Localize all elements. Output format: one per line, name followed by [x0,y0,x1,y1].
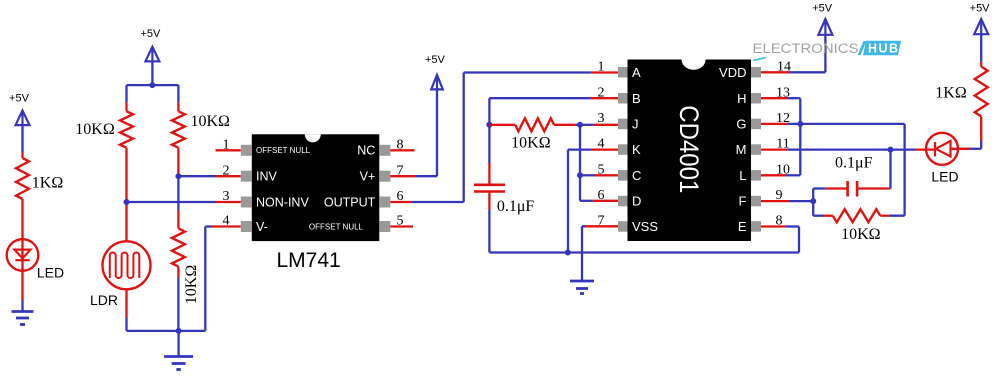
svg-text:H: H [737,91,746,106]
svg-text:CD4001: CD4001 [674,105,704,193]
svg-text:VSS: VSS [632,219,658,234]
svg-text:G: G [736,117,746,132]
svg-text:2: 2 [223,163,230,178]
svg-text:D: D [632,194,641,209]
svg-text:0.1μF: 0.1μF [497,198,535,215]
svg-text:OFFSET NULL: OFFSET NULL [256,146,311,155]
svg-text:B: B [632,91,641,106]
svg-text:4: 4 [598,137,605,152]
svg-text:LED: LED [931,168,958,184]
svg-text:K: K [632,142,641,157]
svg-text:NC: NC [357,144,375,158]
svg-text:C: C [632,168,641,183]
svg-text:6: 6 [598,188,605,203]
svg-text:10KΩ: 10KΩ [841,226,881,243]
svg-text:+5V: +5V [9,92,30,104]
svg-text:5: 5 [598,162,605,177]
svg-text:1KΩ: 1KΩ [935,85,967,102]
svg-text:NON-INV: NON-INV [256,195,309,209]
svg-text:OUTPUT: OUTPUT [324,195,376,209]
svg-text:ELECTRONICS: ELECTRONICS [753,41,859,56]
svg-text:LED: LED [37,264,64,280]
svg-text:VDD: VDD [719,65,746,80]
svg-text:0.1μF: 0.1μF [835,154,873,171]
svg-text:L: L [739,168,746,183]
svg-text:1: 1 [598,59,605,74]
svg-text:3: 3 [223,189,230,204]
svg-text:1: 1 [223,137,230,152]
svg-text:+5V: +5V [970,3,991,15]
svg-text:+5V: +5V [812,3,833,15]
svg-text:LM741: LM741 [276,249,340,272]
svg-text:10KΩ: 10KΩ [511,135,551,152]
svg-text:V+: V+ [360,170,376,184]
svg-text:4: 4 [223,214,230,229]
svg-text:3: 3 [598,111,605,126]
svg-text:V-: V- [256,220,268,234]
svg-text:E: E [738,219,747,234]
svg-text:1KΩ: 1KΩ [32,175,64,192]
svg-text:+5V: +5V [425,54,446,66]
svg-text:7: 7 [598,214,605,229]
svg-text:10KΩ: 10KΩ [75,121,115,138]
svg-text:LDR: LDR [90,292,118,308]
svg-text:10KΩ: 10KΩ [190,113,230,130]
svg-text:A: A [632,65,641,80]
svg-text:J: J [632,117,639,132]
svg-text:M: M [736,142,747,157]
svg-text:+5V: +5V [140,28,161,40]
svg-text:HUB: HUB [868,42,900,56]
svg-text:F: F [739,194,747,209]
svg-text:10KΩ: 10KΩ [183,265,200,305]
svg-text:OFFSET NULL: OFFSET NULL [309,222,364,231]
svg-text:INV: INV [256,170,278,184]
svg-text:2: 2 [598,85,605,100]
